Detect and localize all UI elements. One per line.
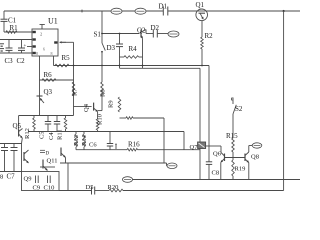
svg-text:D: D (46, 152, 50, 157)
svg-text:Q6: Q6 (213, 151, 222, 158)
svg-text:2: 2 (40, 32, 42, 37)
svg-text:R13: R13 (73, 135, 80, 146)
svg-text:R14: R14 (81, 134, 88, 146)
svg-text:D5: D5 (86, 184, 94, 191)
svg-text:R4: R4 (129, 45, 138, 53)
svg-text:R16: R16 (128, 141, 140, 149)
svg-text:Q9: Q9 (24, 176, 32, 183)
svg-text:D3: D3 (107, 44, 116, 52)
svg-text:R20: R20 (108, 184, 119, 191)
svg-text:S2: S2 (235, 105, 243, 113)
svg-text:R6: R6 (44, 71, 53, 79)
svg-text:8: 8 (51, 51, 53, 56)
svg-text:C7: C7 (7, 173, 16, 181)
svg-text:U1: U1 (48, 17, 58, 26)
svg-text:6: 6 (43, 47, 45, 52)
svg-text:S1: S1 (94, 31, 102, 39)
svg-text:C9: C9 (33, 185, 41, 192)
svg-text:Q7: Q7 (190, 144, 199, 151)
svg-text:R11: R11 (57, 129, 64, 140)
svg-text:Q11: Q11 (47, 158, 58, 165)
svg-text:C3: C3 (5, 57, 14, 65)
svg-text:Q2: Q2 (137, 27, 146, 35)
svg-text:R2: R2 (205, 32, 214, 40)
svg-text:R19: R19 (235, 166, 246, 173)
svg-text:Q5: Q5 (13, 122, 22, 130)
svg-text:Q8: Q8 (251, 154, 259, 161)
svg-text:C5: C5 (39, 131, 46, 139)
svg-text:D2: D2 (151, 24, 160, 32)
svg-text:Q1: Q1 (196, 1, 205, 9)
svg-text:C8: C8 (212, 170, 220, 177)
svg-text:8: 8 (0, 174, 3, 181)
svg-text:Q4: Q4 (83, 103, 90, 112)
svg-text:R9: R9 (108, 100, 115, 108)
svg-text:R8: R8 (100, 89, 107, 97)
svg-text:C4: C4 (48, 132, 55, 140)
svg-text:C6: C6 (89, 142, 97, 149)
svg-text:R12: R12 (24, 128, 31, 139)
svg-text:8: 8 (36, 51, 38, 56)
svg-text:R7: R7 (72, 88, 79, 96)
svg-text:R15: R15 (226, 132, 238, 140)
svg-text:Q3: Q3 (44, 88, 53, 96)
svg-text:R1: R1 (10, 24, 19, 32)
svg-text:C2: C2 (17, 57, 26, 65)
svg-text:R5: R5 (62, 54, 71, 62)
svg-text:R10: R10 (97, 114, 104, 125)
svg-text:D1: D1 (159, 3, 168, 11)
svg-text:+: + (24, 44, 27, 49)
svg-text:C10: C10 (44, 185, 55, 192)
